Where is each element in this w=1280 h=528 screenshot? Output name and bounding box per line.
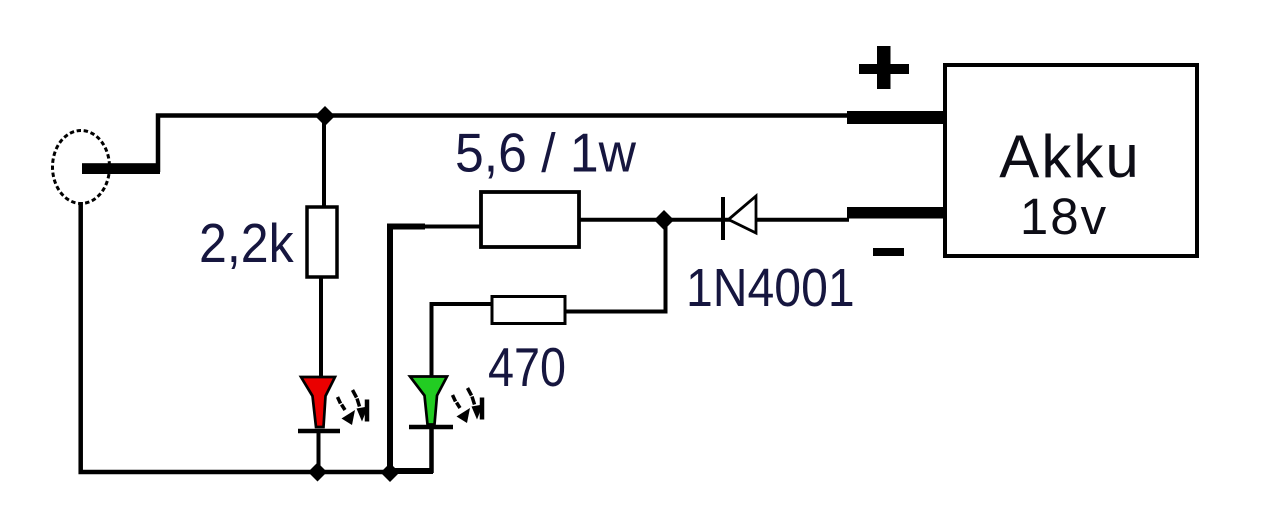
LED D1 cathode bar	[298, 429, 340, 434]
plus sign	[859, 46, 909, 89]
junction node top	[315, 106, 335, 126]
resistor R1 2,2k	[307, 207, 337, 277]
wire thick bottom segment to green LED	[390, 468, 433, 474]
minus sign	[873, 248, 904, 256]
wire 2,2k top	[322, 115, 326, 208]
wire thick vertical	[387, 227, 393, 473]
LED D2 cathode bar	[409, 425, 453, 430]
wire thin to 5,6 resistor	[425, 225, 482, 229]
LED D1 arrows	[338, 390, 369, 425]
wire thick horizontal to 5,6 resistor	[387, 224, 425, 230]
wire 2,2k bottom to red LED	[319, 277, 323, 378]
wire 5,6 resistor to junction and diode	[579, 218, 849, 222]
junction node middle (diode)	[654, 210, 674, 230]
wire green LED cathode to bottom rail	[429, 428, 434, 473]
connector J1 (dashed circle)	[53, 131, 110, 204]
svg-text:5,6 / 1w: 5,6 / 1w	[455, 123, 636, 184]
svg-text:470: 470	[488, 336, 566, 397]
battery box Akku	[945, 65, 1197, 256]
junction node bottom right	[381, 463, 400, 482]
wire 470 to green LED corner	[432, 304, 493, 378]
svg-text:Akku: Akku	[999, 123, 1140, 190]
wire left side and bottom rail	[81, 202, 392, 472]
wire red LED to bottom rail	[317, 433, 321, 472]
junction node bottom left	[308, 463, 327, 482]
LED D2 green	[410, 377, 447, 425]
battery minus terminal bar	[847, 207, 945, 219]
resistor R3 470	[492, 297, 565, 324]
svg-text:1N4001: 1N4001	[686, 258, 855, 318]
wire horizontal to 470 resistor	[565, 310, 668, 314]
resistor R2 5,6/1w	[481, 192, 579, 247]
wire top rail from corner to battery plus terminal	[158, 116, 850, 173]
svg-text:2,2k: 2,2k	[199, 213, 294, 275]
svg-text:18v: 18v	[1020, 188, 1108, 245]
diode D3 1N4001 triangle	[729, 196, 757, 233]
LED D1 red	[301, 377, 335, 427]
LED D2 arrows	[453, 388, 484, 423]
diode D3 cathode bar	[721, 197, 725, 240]
wire junction down	[664, 220, 668, 312]
connector plug stub	[82, 163, 160, 174]
battery plus terminal bar	[847, 111, 945, 124]
